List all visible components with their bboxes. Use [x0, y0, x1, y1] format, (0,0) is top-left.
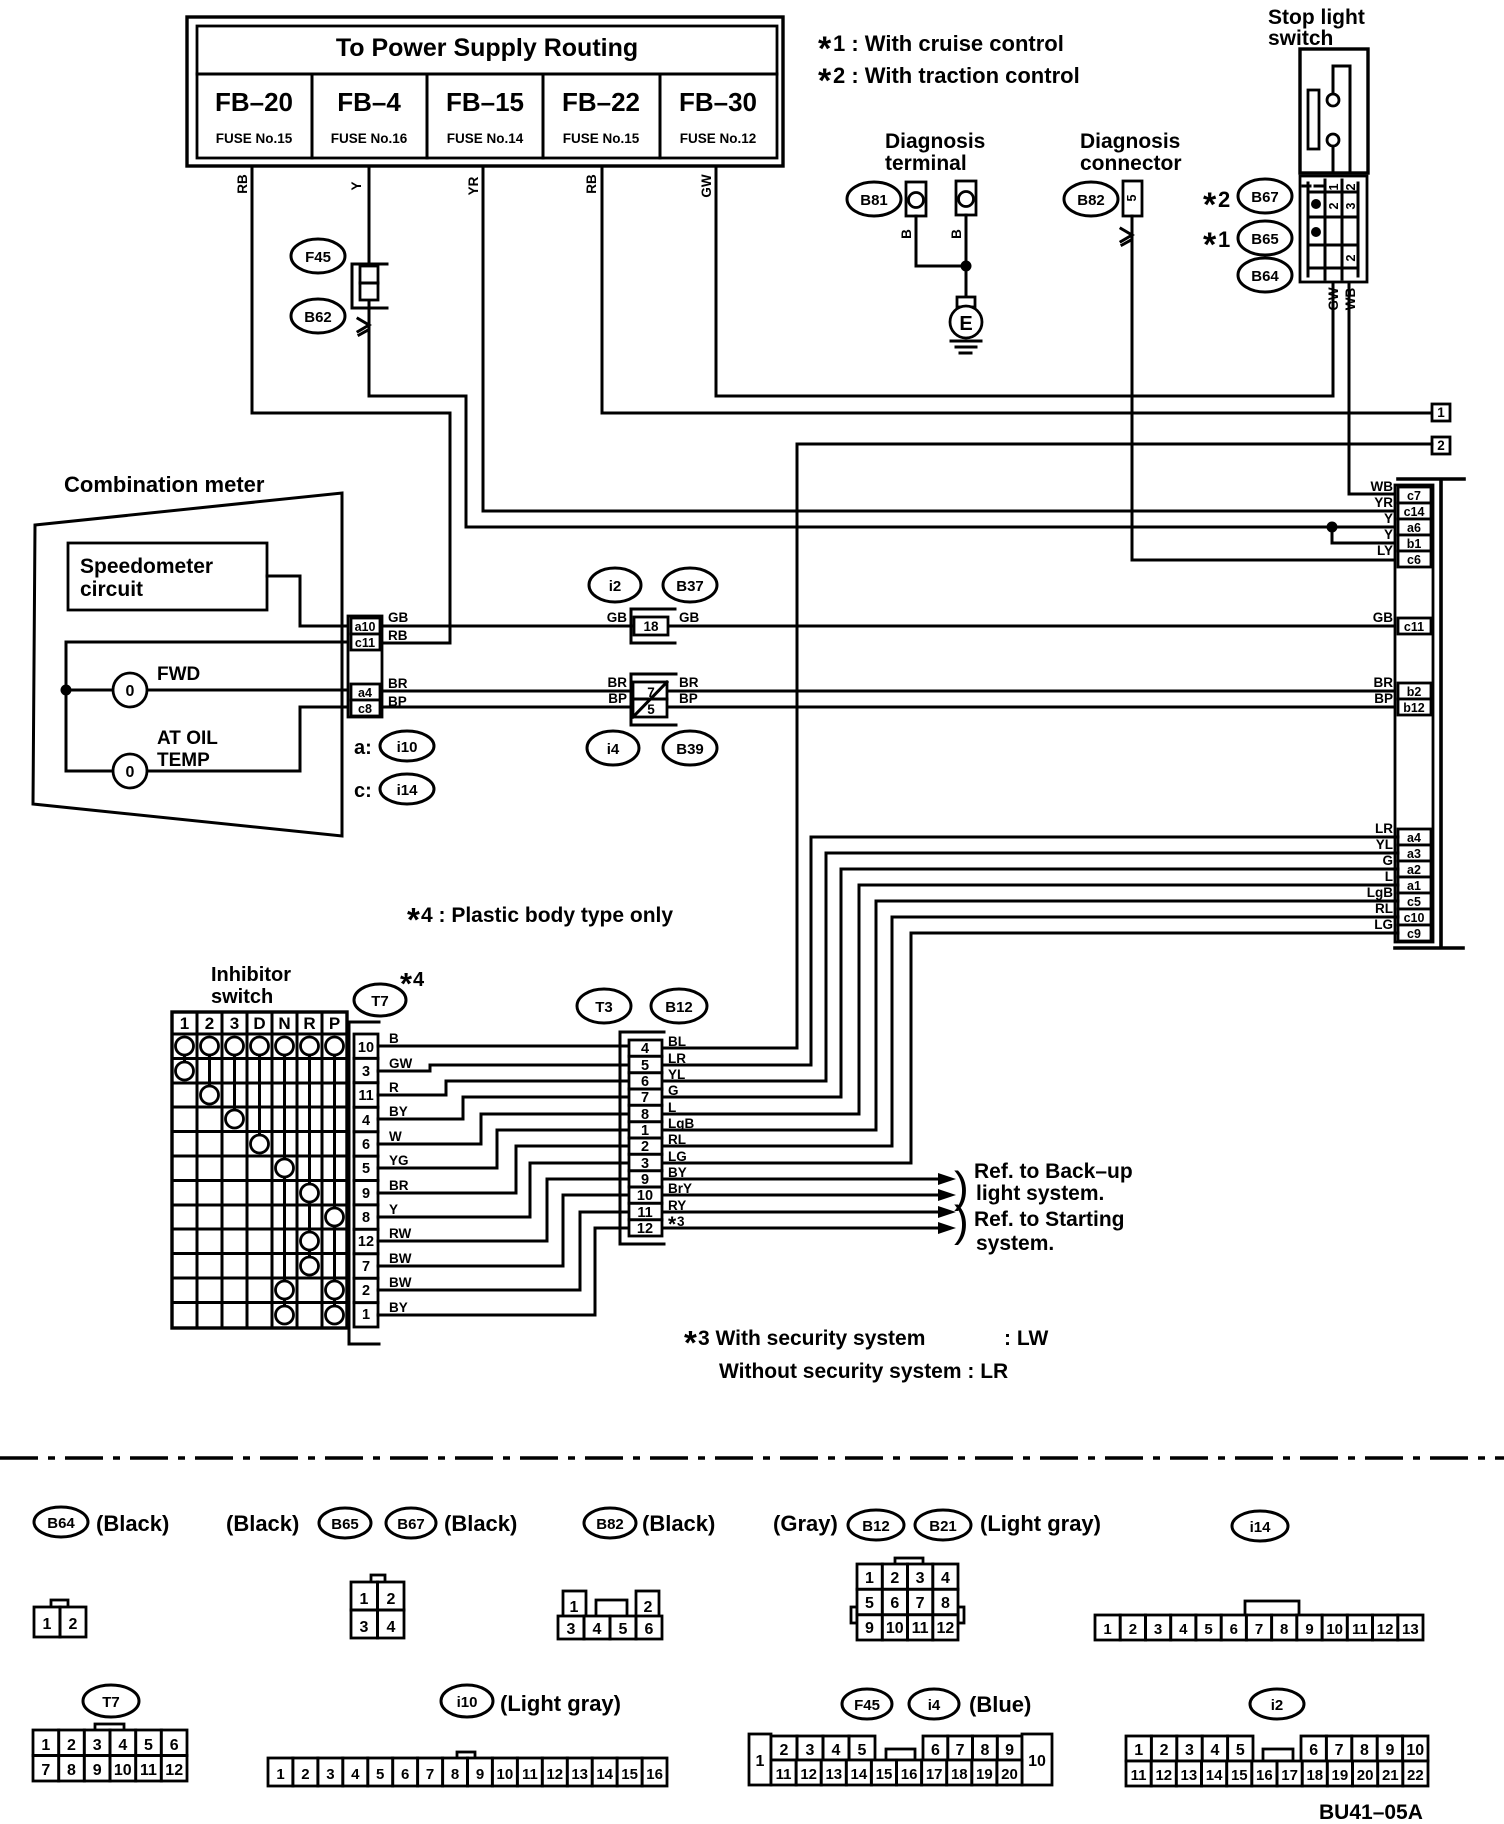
svg-text:1: 1: [41, 1737, 50, 1754]
connector 7/5 cells: [633, 682, 667, 717]
svg-text:19: 19: [976, 1766, 993, 1783]
svg-text:8: 8: [451, 1766, 459, 1783]
svg-text:BW: BW: [389, 1275, 412, 1290]
svg-text:9: 9: [1305, 1621, 1313, 1638]
cell c8: [351, 700, 380, 716]
combination meter body: [33, 493, 342, 836]
svg-text:11: 11: [140, 1762, 157, 1779]
meter connector block: [348, 616, 382, 717]
svg-text:BY: BY: [389, 1300, 408, 1315]
B82 connector pinout: [563, 1591, 586, 1617]
svg-text:5: 5: [858, 1742, 867, 1759]
svg-text:c9: c9: [1407, 927, 1421, 941]
svg-text:8: 8: [362, 1210, 370, 1226]
svg-text:BY: BY: [668, 1165, 687, 1180]
svg-text:b12: b12: [1403, 701, 1425, 715]
B82 ref oval: [1064, 182, 1118, 216]
wire YL pin6 to a3: [662, 853, 1398, 1081]
svg-text:a2: a2: [1407, 863, 1421, 877]
svg-text:1: 1: [362, 1307, 370, 1323]
svg-text:B12: B12: [665, 999, 693, 1016]
ground: [951, 341, 981, 353]
svg-text:14: 14: [851, 1766, 868, 1783]
AT OIL TEMP gauge: [113, 754, 147, 788]
cell a4: [351, 684, 380, 700]
svg-text:L: L: [1385, 869, 1393, 884]
svg-text:2: 2: [362, 1283, 370, 1299]
svg-text:3: 3: [360, 1619, 369, 1636]
cell a10: [351, 618, 380, 634]
svg-text:R: R: [303, 1014, 315, 1033]
svg-text:1: 1: [865, 1570, 874, 1587]
svg-text:1: 1: [570, 1599, 579, 1616]
wire LR pin5 to a4: [662, 837, 1398, 1065]
column contact lines: [185, 1046, 335, 1315]
connector 18 cell: [634, 617, 668, 635]
svg-text:BR: BR: [608, 675, 628, 690]
svg-text:9: 9: [93, 1762, 102, 1779]
svg-text:10: 10: [358, 1040, 374, 1056]
svg-text:1: 1: [360, 1591, 369, 1608]
svg-text:BP: BP: [608, 691, 627, 706]
svg-text:4: 4: [362, 1113, 370, 1129]
svg-text:5: 5: [362, 1161, 370, 1177]
svg-text:4: 4: [832, 1742, 841, 1759]
svg-text:FB–30: FB–30: [679, 87, 757, 117]
svg-text:BR: BR: [679, 675, 699, 690]
svg-text:22: 22: [1407, 1767, 1424, 1784]
B64 connector pinout: [51, 1600, 68, 1608]
svg-text:9: 9: [865, 1620, 874, 1637]
svg-text:7: 7: [41, 1762, 50, 1779]
svg-text:YG: YG: [389, 1153, 409, 1168]
svg-text:G: G: [668, 1083, 679, 1098]
svg-text:5: 5: [1204, 1621, 1212, 1638]
svg-text:F45: F45: [854, 1697, 880, 1714]
svg-text:BP: BP: [679, 691, 698, 706]
wire RL pin2 to c10: [662, 917, 1398, 1146]
svg-text:LgB: LgB: [1367, 885, 1393, 900]
svg-text:*: *: [1203, 226, 1217, 264]
svg-text:4: 4: [351, 1766, 360, 1783]
svg-text:a4: a4: [1407, 831, 1421, 845]
svg-text:12: 12: [358, 1234, 374, 1250]
svg-text:5: 5: [865, 1595, 874, 1612]
T7 connector bracket: [349, 1022, 379, 1344]
svg-text:3: 3: [806, 1742, 815, 1759]
cell b1: [1398, 535, 1431, 551]
svg-text:Inhibitor: Inhibitor: [211, 964, 291, 986]
svg-text:YR: YR: [466, 176, 481, 195]
svg-text:FUSE No.15: FUSE No.15: [563, 131, 640, 146]
svg-text:7: 7: [1335, 1742, 1344, 1759]
wire LgB pin1 to c5: [662, 901, 1398, 1130]
svg-text:connector: connector: [1080, 152, 1182, 175]
svg-text:14: 14: [596, 1766, 613, 1783]
svg-text:11: 11: [1131, 1767, 1147, 1784]
svg-text:1: 1: [180, 1014, 189, 1033]
svg-text:a10: a10: [355, 620, 376, 634]
svg-text:BrY: BrY: [668, 1181, 692, 1196]
svg-text:system.: system.: [976, 1232, 1054, 1255]
svg-text:B64: B64: [47, 1515, 75, 1532]
svg-text:WB: WB: [1371, 479, 1394, 494]
i4 ref oval bottom: [909, 1689, 959, 1719]
svg-text:3: 3: [1185, 1742, 1194, 1759]
svg-text:GW: GW: [1326, 287, 1341, 311]
svg-text:RB: RB: [584, 174, 599, 194]
i4 ref oval: [587, 731, 639, 765]
B82 ref oval: [584, 1508, 636, 1538]
svg-text:11: 11: [637, 1205, 652, 1221]
wire Y branch to b1: [1332, 527, 1398, 543]
svg-text:7: 7: [426, 1766, 434, 1783]
T3 ref oval: [577, 989, 631, 1023]
T3/B12 connector bracket: [620, 1032, 664, 1244]
wire GB a10 to c11: [382, 625, 1398, 628]
T7 connector pinout: [95, 1724, 124, 1731]
contact circle row 2 col 1: [176, 1062, 194, 1080]
svg-text:G: G: [1382, 853, 1393, 868]
svg-text:c:: c:: [354, 780, 372, 802]
svg-text:4: 4: [413, 969, 425, 991]
contact circle row 10 col R: [301, 1257, 319, 1275]
svg-text:2 : With traction control: 2 : With traction control: [833, 63, 1080, 88]
svg-text:10: 10: [497, 1766, 514, 1783]
svg-text:4 : Plastic body type only: 4 : Plastic body type only: [421, 904, 673, 927]
svg-text:BU41–05A: BU41–05A: [1319, 1801, 1423, 1824]
svg-text:12: 12: [1155, 1767, 1172, 1784]
svg-text:3: 3: [916, 1570, 925, 1587]
svg-text:2: 2: [1218, 187, 1230, 212]
svg-text:RB: RB: [388, 628, 408, 643]
svg-text:12: 12: [165, 1762, 183, 1779]
wire GW from FB-30 to stop light switch: [716, 166, 1333, 396]
svg-text:a:: a:: [354, 737, 372, 759]
svg-text:6: 6: [890, 1595, 899, 1612]
wire YR from FB-15 to c14: [483, 166, 1398, 511]
svg-text:4: 4: [1179, 1621, 1188, 1638]
wire BY pin1: [378, 1228, 629, 1315]
svg-text:*: *: [684, 1324, 697, 1361]
cell a6: [1398, 519, 1431, 535]
svg-text:5: 5: [641, 1058, 649, 1074]
svg-text:11: 11: [522, 1766, 538, 1783]
wire BR pin9: [378, 1146, 629, 1193]
connector symbol on LY wire: [1121, 229, 1132, 246]
svg-text:10: 10: [886, 1620, 904, 1637]
svg-text:7: 7: [641, 1090, 649, 1106]
svg-text:Diagnosis: Diagnosis: [1080, 130, 1180, 153]
wire meter internal RB: [66, 642, 348, 771]
svg-text:2: 2: [1437, 438, 1445, 453]
svg-text:3: 3: [230, 1014, 239, 1033]
diagnosis terminal 2: [956, 181, 976, 215]
svg-text:terminal: terminal: [885, 152, 967, 175]
svg-text:8: 8: [1280, 1621, 1288, 1638]
svg-text:2: 2: [641, 1139, 649, 1155]
svg-text:16: 16: [901, 1766, 918, 1783]
svg-text:18: 18: [1306, 1767, 1323, 1784]
svg-text:): ): [954, 1197, 969, 1246]
svg-text:4: 4: [118, 1737, 127, 1754]
B12/B21 connector pinout: [895, 1558, 923, 1565]
svg-text:T3: T3: [595, 999, 613, 1016]
TCU connector bracket: [1395, 479, 1464, 948]
svg-text:D: D: [253, 1014, 265, 1033]
svg-text:Diagnosis: Diagnosis: [885, 130, 985, 153]
svg-text:Y: Y: [1384, 511, 1393, 526]
wire YG pin5: [378, 1130, 629, 1168]
contact circle row 3 col 2: [201, 1086, 219, 1104]
svg-text:B65: B65: [1251, 231, 1279, 248]
svg-text:2: 2: [387, 1591, 396, 1608]
svg-text:RL: RL: [668, 1132, 686, 1147]
svg-text:8: 8: [641, 1107, 649, 1123]
B81 ref oval: [847, 182, 901, 216]
svg-text:Ref. to Starting: Ref. to Starting: [974, 1208, 1125, 1231]
wire W pin6: [378, 1114, 629, 1144]
svg-text:Ref. to Back–up: Ref. to Back–up: [974, 1160, 1133, 1183]
svg-text:BY: BY: [389, 1104, 408, 1119]
svg-text:FB–15: FB–15: [446, 87, 524, 117]
F45 ref oval: [291, 239, 345, 273]
svg-text:11: 11: [776, 1766, 792, 1783]
svg-text:6: 6: [931, 1742, 940, 1759]
svg-text:a3: a3: [1407, 847, 1421, 861]
B39 ref oval: [663, 731, 717, 765]
contact circle row 8 col P: [326, 1208, 344, 1226]
svg-text:3: 3: [93, 1737, 102, 1754]
svg-text:11: 11: [1352, 1621, 1368, 1638]
svg-text:GB: GB: [607, 610, 628, 625]
svg-text:12: 12: [800, 1766, 817, 1783]
svg-text:circuit: circuit: [80, 578, 143, 601]
svg-text:L: L: [668, 1100, 676, 1115]
svg-text:Y: Y: [1384, 527, 1393, 542]
svg-text:16: 16: [1256, 1767, 1273, 1784]
svg-text:6: 6: [1309, 1742, 1318, 1759]
svg-text:B12: B12: [862, 1518, 890, 1535]
svg-text:5: 5: [619, 1621, 628, 1638]
svg-text:switch: switch: [211, 986, 273, 1008]
svg-text:13: 13: [1402, 1621, 1419, 1638]
svg-text:E: E: [959, 313, 972, 335]
stop light switch body: [1300, 49, 1368, 173]
diagnosis terminal 1: [906, 182, 926, 216]
wire BW pin7: [378, 1195, 629, 1266]
svg-text:2: 2: [301, 1766, 309, 1783]
svg-text:b1: b1: [1407, 537, 1422, 551]
contact circle row 4 col 3: [226, 1110, 244, 1128]
svg-text:RW: RW: [389, 1226, 412, 1241]
svg-text:3 With security system: 3 With security system: [698, 1327, 925, 1350]
svg-text:13: 13: [571, 1766, 588, 1783]
svg-text:GB: GB: [679, 610, 700, 625]
svg-text:(Light gray): (Light gray): [980, 1511, 1101, 1536]
svg-text:1: 1: [276, 1766, 284, 1783]
svg-text:B: B: [389, 1031, 399, 1046]
contact circles row 11 N P: [276, 1281, 294, 1299]
cell b2: [1398, 683, 1431, 699]
junction dot: [61, 685, 72, 696]
svg-text:12: 12: [1377, 1621, 1394, 1638]
svg-text:FB–20: FB–20: [215, 87, 293, 117]
svg-text:5: 5: [647, 702, 655, 717]
wire speedometer to a10: [267, 576, 351, 626]
svg-text:2: 2: [1344, 254, 1358, 261]
svg-text:10: 10: [1326, 1621, 1343, 1638]
svg-text:FWD: FWD: [157, 664, 200, 685]
svg-text:21: 21: [1382, 1767, 1399, 1784]
svg-text:19: 19: [1332, 1767, 1349, 1784]
svg-text:GB: GB: [1373, 610, 1394, 625]
svg-text:LR: LR: [668, 1051, 686, 1066]
wire *3 pin12 to starting system: [662, 1227, 938, 1230]
svg-text:8: 8: [1360, 1742, 1369, 1759]
svg-text:3: 3: [677, 1214, 685, 1229]
switch contact circles: [1327, 94, 1339, 106]
svg-text:16: 16: [646, 1766, 663, 1783]
svg-text:BR: BR: [388, 676, 408, 691]
svg-text:B82: B82: [596, 1516, 624, 1533]
F45/i4 connector pinout: [749, 1734, 771, 1785]
svg-text:B21: B21: [929, 1518, 957, 1535]
svg-text:17: 17: [1281, 1767, 1298, 1784]
svg-text:BR: BR: [1374, 675, 1394, 690]
svg-text:YL: YL: [668, 1067, 685, 1082]
svg-text:9: 9: [641, 1172, 649, 1188]
svg-text:Without security system : LR: Without security system : LR: [719, 1360, 1008, 1383]
svg-text:(Light gray): (Light gray): [500, 1691, 621, 1716]
svg-text:3: 3: [362, 1064, 370, 1080]
svg-text:c11: c11: [1404, 620, 1424, 634]
svg-text:4: 4: [593, 1621, 602, 1638]
svg-text:YL: YL: [1376, 837, 1393, 852]
svg-text:2: 2: [780, 1742, 789, 1759]
svg-text:R: R: [389, 1080, 399, 1095]
wire Y from FB-4 through F45 to node A: [369, 166, 1398, 527]
switch contact wire: [1333, 66, 1350, 173]
svg-text:0: 0: [126, 764, 135, 781]
cell a4: [1398, 829, 1431, 845]
T7 connector cells: [354, 1034, 378, 1327]
svg-text:10: 10: [1028, 1753, 1046, 1770]
svg-text:FB–22: FB–22: [562, 87, 640, 117]
svg-text:10: 10: [114, 1762, 132, 1779]
cell c14: [1398, 503, 1431, 519]
svg-text:B64: B64: [1251, 268, 1279, 285]
svg-text:9: 9: [362, 1186, 370, 1202]
svg-text:LR: LR: [1375, 821, 1393, 836]
svg-text:To Power Supply Routing: To Power Supply Routing: [336, 34, 638, 62]
speedometer circuit box: [68, 543, 267, 610]
T7 ref oval: [354, 984, 406, 1016]
svg-text:3: 3: [1344, 202, 1358, 209]
svg-text:11: 11: [912, 1620, 929, 1637]
svg-text:(Gray): (Gray): [773, 1511, 838, 1536]
svg-text:13: 13: [825, 1766, 842, 1783]
svg-text:1: 1: [1134, 1742, 1143, 1759]
svg-text:FUSE No.16: FUSE No.16: [331, 131, 408, 146]
svg-text:7: 7: [956, 1742, 965, 1759]
i2 ref oval bottom: [1250, 1689, 1304, 1719]
svg-text:6: 6: [401, 1766, 409, 1783]
svg-text:1: 1: [43, 1616, 52, 1633]
cell c5: [1398, 893, 1431, 909]
wire R pin11: [378, 1081, 629, 1095]
svg-text:12: 12: [937, 1620, 955, 1637]
svg-text:6: 6: [362, 1137, 370, 1153]
svg-text:B67: B67: [397, 1516, 425, 1533]
svg-text:LgB: LgB: [668, 1116, 694, 1131]
contact circle row 5 col D: [251, 1135, 269, 1153]
svg-text:3: 3: [326, 1766, 334, 1783]
svg-text:2: 2: [67, 1737, 76, 1754]
wire BY pin4: [378, 1097, 629, 1119]
svg-text:W: W: [389, 1129, 402, 1144]
switch slot: [1308, 90, 1319, 149]
svg-text:2: 2: [205, 1014, 214, 1033]
svg-text:0: 0: [126, 683, 135, 700]
i2 connector pinout: [1126, 1736, 1253, 1761]
B12 ref oval: [651, 989, 707, 1023]
svg-text:: LW: : LW: [1004, 1327, 1048, 1350]
svg-text:i10: i10: [457, 1694, 478, 1711]
svg-text:BL: BL: [668, 1034, 686, 1049]
svg-text:i4: i4: [607, 741, 620, 758]
svg-text:10: 10: [1406, 1742, 1424, 1759]
cell a3: [1398, 845, 1431, 861]
cell b12: [1398, 699, 1431, 715]
svg-text:GB: GB: [388, 610, 409, 625]
svg-text:i14: i14: [1250, 1519, 1272, 1536]
connector 18 bracket: [631, 609, 675, 643]
svg-text:1: 1: [1327, 183, 1341, 190]
wire BY pin9 to back-up light: [662, 1178, 938, 1181]
svg-text:RL: RL: [1375, 901, 1393, 916]
svg-text:7: 7: [1255, 1621, 1263, 1638]
switch connector block: [1300, 176, 1367, 282]
svg-text:1: 1: [1103, 1621, 1111, 1638]
svg-text:*: *: [407, 901, 420, 938]
i2 ref oval: [589, 568, 641, 602]
svg-text:3: 3: [641, 1156, 649, 1172]
svg-text:15: 15: [1231, 1767, 1248, 1784]
svg-text:5: 5: [376, 1766, 384, 1783]
svg-text:*: *: [668, 1213, 677, 1236]
contact circles row 12 N P: [276, 1306, 294, 1324]
TCU connector body: [1395, 485, 1433, 942]
svg-text:LG: LG: [668, 1149, 687, 1164]
wire to FWD gauge: [66, 689, 351, 692]
svg-text:1: 1: [1437, 405, 1445, 420]
svg-text:switch: switch: [1268, 27, 1333, 50]
power box dividers: [197, 74, 777, 158]
svg-text:c14: c14: [1404, 505, 1425, 519]
svg-text:9: 9: [1005, 1742, 1014, 1759]
svg-text:1: 1: [641, 1123, 649, 1139]
wire B from terminal 2: [965, 215, 968, 297]
cell a1: [1398, 877, 1431, 893]
wire RY pin11 to starting system: [662, 1211, 938, 1214]
svg-text:15: 15: [621, 1766, 638, 1783]
cell c11: [1398, 618, 1431, 634]
svg-text:8: 8: [980, 1742, 989, 1759]
wire BP c8 to b12: [382, 706, 1398, 709]
svg-text:8: 8: [941, 1595, 950, 1612]
wire G pin7 to a2: [662, 869, 1398, 1097]
